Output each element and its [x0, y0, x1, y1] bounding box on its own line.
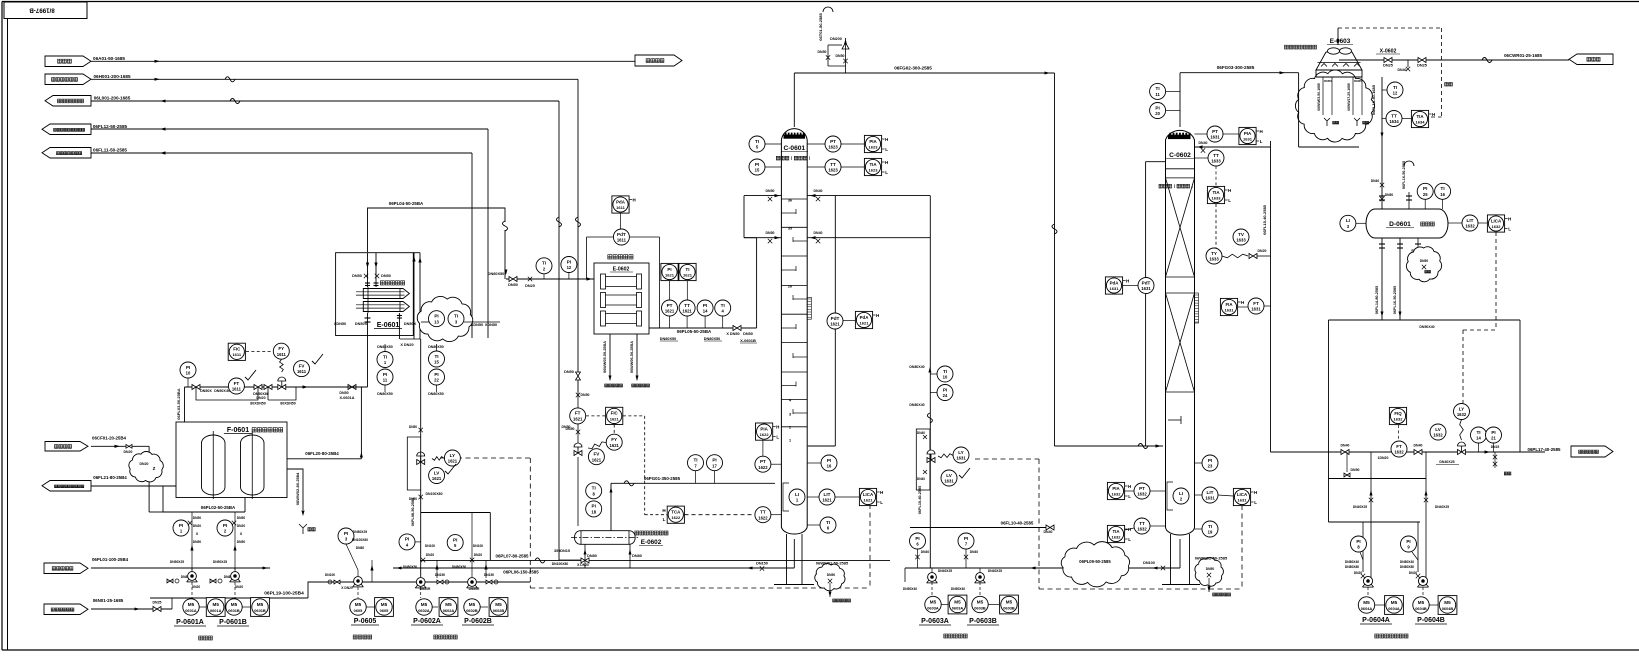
- svg-text:PdT: PdT: [831, 316, 840, 321]
- label 提馏塔底泵: [434, 635, 438, 639]
- svg-text:DN20: DN20: [525, 284, 535, 288]
- svg-text:1631: 1631: [956, 456, 966, 461]
- svg-text:TIA: TIA: [1212, 190, 1220, 195]
- cloud interior drains: [1322, 77, 1324, 115]
- instrument PIA-1631: [1239, 127, 1256, 144]
- instrument TIA-1634: [1411, 110, 1428, 127]
- svg-text:XDN50: XDN50: [334, 322, 346, 326]
- svg-text:1611: 1611: [277, 352, 287, 357]
- svg-text:06FL12-50-2585: 06FL12-50-2585: [93, 124, 128, 129]
- instrument TI-10: [937, 366, 953, 382]
- signal LICA-1632 to LY-1632: [1495, 232, 1497, 330]
- svg-text:DN40: DN40: [917, 431, 925, 435]
- svg-text:26: 26: [788, 285, 792, 289]
- svg-text:06WW03-50-1685: 06WW03-50-1685: [1317, 83, 1321, 111]
- svg-text:DN40: DN40: [917, 477, 925, 481]
- svg-text:1633: 1633: [1236, 238, 1246, 243]
- svg-text:DN80X40: DN80X40: [909, 365, 924, 369]
- feed riser from filter: [743, 196, 745, 238]
- svg-text:DN20: DN20: [426, 553, 435, 557]
- svg-text:1632: 1632: [1465, 224, 1475, 229]
- svg-text:DN150: DN150: [484, 573, 494, 577]
- svg-text:LICA: LICA: [1237, 492, 1248, 497]
- svg-text:1632: 1632: [1457, 412, 1467, 417]
- instrument LICA-1632: [1487, 215, 1504, 232]
- P-0605 suction: [330, 581, 358, 583]
- valves on product line: [1414, 450, 1422, 455]
- svg-text:PI: PI: [827, 458, 831, 463]
- filter element: [601, 274, 606, 289]
- pipe through cloud: [421, 321, 429, 323]
- svg-text:PT: PT: [667, 303, 673, 308]
- svg-text:DN40: DN40: [921, 550, 930, 554]
- pump P-0604B: [1418, 576, 1427, 585]
- C-0602 packing section 1: [1166, 276, 1195, 278]
- svg-text:TCA: TCA: [671, 510, 681, 515]
- svg-text:1631: 1631: [1251, 307, 1261, 312]
- svg-text:1623: 1623: [869, 144, 879, 149]
- motor P-0602A: [416, 599, 432, 615]
- svg-text:DN100: DN100: [425, 544, 435, 548]
- pipe feed to E-0602: [506, 278, 594, 280]
- svg-text:D-0601: D-0601: [1389, 221, 1411, 228]
- svg-text:PI: PI: [592, 504, 596, 509]
- instrument FT-1621: [570, 408, 586, 424]
- svg-text:DN50X: DN50X: [355, 322, 368, 326]
- svg-text:PI: PI: [1423, 186, 1427, 191]
- svg-text:M5: M5: [421, 602, 428, 607]
- pump P-0601B symbol: [231, 572, 240, 581]
- P-0605 discharge: [371, 560, 373, 582]
- svg-text:DN80: DN80: [356, 546, 365, 550]
- svg-text:PI: PI: [943, 387, 947, 392]
- svg-text:1634: 1634: [1416, 119, 1426, 124]
- pipe raw water feed 06PL01: [91, 567, 270, 569]
- stream arrow 至用气点: [635, 55, 682, 66]
- C-0602 demister hatch: [1168, 135, 1191, 139]
- svg-text:M5: M5: [188, 602, 195, 607]
- D-0601 top nozzles: [1408, 192, 1410, 209]
- signal dashed box left: [440, 457, 530, 459]
- svg-text:06A01-50-1685: 06A01-50-1685: [93, 56, 125, 61]
- svg-text:DN150: DN150: [756, 562, 768, 566]
- svg-text:18: 18: [591, 510, 596, 515]
- svg-text:FT: FT: [234, 381, 240, 386]
- instrument LV-1621 bubble: [429, 468, 445, 484]
- reflux riser: [1270, 141, 1272, 452]
- signal FIC to FY: [246, 351, 272, 353]
- equipment D-0601 reflux drum: [1366, 209, 1448, 238]
- svg-text:06WW02-80-2584: 06WW02-80-2584: [295, 472, 300, 505]
- motor interlock P-0603A: [948, 595, 967, 614]
- svg-text:0603A: 0603A: [927, 605, 939, 610]
- svg-text:L: L: [885, 170, 888, 175]
- svg-text:C-0602: C-0602: [1169, 152, 1191, 159]
- svg-text:06PL03-50-25BA: 06PL03-50-25BA: [176, 388, 181, 419]
- svg-text:16: 16: [827, 464, 832, 469]
- pipe column bottoms to pumps: [640, 567, 745, 569]
- svg-text:1631: 1631: [1210, 135, 1220, 140]
- svg-text:DN80X50: DN80X50: [488, 272, 504, 276]
- svg-text:DN80X50: DN80X50: [428, 345, 444, 349]
- svg-text:X DN20: X DN20: [341, 586, 353, 590]
- motor interlock P-0605: [375, 598, 394, 617]
- svg-text:PI: PI: [915, 536, 919, 541]
- svg-text:0604A: 0604A: [1388, 606, 1400, 611]
- svg-text:1611: 1611: [617, 238, 627, 243]
- svg-text:FIA: FIA: [1225, 302, 1233, 307]
- svg-text:1: 1: [789, 439, 791, 443]
- svg-text:DN40: DN40: [970, 550, 979, 554]
- svg-text:06FG02-300-2585: 06FG02-300-2585: [894, 66, 932, 71]
- svg-text:PdT: PdT: [617, 232, 626, 237]
- level control assembly LV-1631: [916, 429, 930, 490]
- E-0601 bottom nozzles: [367, 313, 369, 387]
- svg-text:DN50: DN50: [237, 540, 246, 544]
- pipe feed line to E-0601: [185, 386, 368, 388]
- svg-text:L: L: [776, 435, 779, 440]
- stream arrow 加药管线: [45, 442, 88, 452]
- svg-text:L: L: [1128, 494, 1131, 499]
- svg-text:DN40: DN40: [1371, 179, 1380, 183]
- equipment E-0601 box frame: [336, 253, 414, 336]
- svg-text:DN20: DN20: [235, 585, 244, 589]
- instrument LV-1631: [941, 470, 957, 486]
- label 原料泵: [199, 636, 203, 640]
- instrument TI-15: [429, 351, 445, 367]
- C-0601 right nozzle lower: [807, 237, 930, 239]
- svg-text:L: L: [880, 500, 883, 505]
- svg-text:DN20: DN20: [1258, 249, 1267, 253]
- svg-text:P-0603B: P-0603B: [969, 618, 997, 625]
- stub lines TI/PI right: [436, 344, 438, 351]
- svg-text:06N01-25-1685: 06N01-25-1685: [93, 598, 124, 603]
- suction risers P-0601: [191, 568, 193, 572]
- svg-text:06WW02-50-2585: 06WW02-50-2585: [1195, 556, 1228, 561]
- instrument PIA-1632: [1107, 482, 1124, 499]
- C-0602 packing section 2: [1166, 292, 1195, 294]
- svg-text:DN80X50: DN80X50: [377, 345, 393, 349]
- svg-text:36: 36: [788, 199, 792, 203]
- instrument TIA-1623: [864, 158, 881, 175]
- svg-text:06PL04-50-25BA: 06PL04-50-25BA: [389, 201, 424, 206]
- drain funnel 排净: [299, 524, 303, 528]
- svg-text:12: 12: [1393, 91, 1398, 96]
- svg-text:06FL20-80-25B4: 06FL20-80-25B4: [305, 451, 339, 456]
- instrument LY-1621: [444, 450, 460, 466]
- svg-text:1622: 1622: [671, 515, 681, 520]
- svg-text:DN50: DN50: [1351, 468, 1360, 472]
- discharge risers P-0601: [191, 540, 193, 570]
- arrow into cooler top: [1337, 28, 1339, 45]
- instrument FIC-1611: [228, 343, 245, 360]
- svg-text:TIA: TIA: [869, 162, 877, 167]
- instrument LY-1632: [1454, 404, 1470, 420]
- instrument PI-17: [707, 455, 723, 471]
- pipe below E-0601 area: [330, 386, 368, 388]
- instrument PI-10: [180, 362, 196, 378]
- svg-text:X DN20: X DN20: [577, 563, 589, 567]
- svg-text:1632: 1632: [1137, 492, 1147, 497]
- svg-text:DN50: DN50: [1385, 193, 1394, 197]
- svg-text:FV: FV: [299, 363, 306, 368]
- label 反冲洗泵: [353, 635, 357, 639]
- svg-text:DN50: DN50: [1324, 79, 1332, 83]
- motor P-0603B: [972, 596, 988, 612]
- pipe 仪表风 header: [91, 60, 635, 62]
- motor P-0604A: [1358, 597, 1374, 613]
- C-0602 side hatch strip: [1195, 293, 1199, 323]
- svg-text:15: 15: [434, 360, 439, 365]
- svg-text:1622: 1622: [758, 465, 768, 470]
- bypass loop at LV-1621: [407, 437, 420, 490]
- svg-text:H: H: [1128, 484, 1131, 489]
- filter drain lines: [609, 334, 611, 380]
- svg-text:1623: 1623: [828, 145, 838, 150]
- stream arrow 脱盐水: [1569, 54, 1613, 65]
- stub lines TI/PI left: [384, 344, 386, 352]
- svg-text:X-0601A: X-0601A: [340, 396, 355, 400]
- filter vessel: [241, 435, 265, 495]
- svg-text:M5: M5: [1418, 600, 1425, 605]
- pump P-0603B: [976, 573, 985, 582]
- svg-text:TI: TI: [542, 261, 546, 266]
- pipe C-0601 overhead 06FG02-300-2585: [793, 73, 795, 127]
- instrument PI-5: [447, 535, 463, 551]
- svg-text:L: L: [1228, 198, 1231, 203]
- instrument TI-8: [586, 483, 602, 499]
- instrument PI-6: [910, 533, 926, 549]
- svg-text:DN50: DN50: [352, 274, 362, 278]
- svg-text:DN200: DN200: [830, 37, 842, 41]
- instruments above outlet: [661, 263, 678, 280]
- svg-text:1632: 1632: [1433, 433, 1443, 438]
- svg-text:H: H: [1508, 217, 1511, 222]
- svg-text:TI: TI: [943, 369, 947, 374]
- cloud revision at E-0601 outlet: [417, 296, 472, 341]
- svg-text:TI: TI: [1441, 186, 1445, 191]
- svg-text:TT: TT: [1391, 113, 1397, 118]
- instrument PI-8: [1351, 536, 1367, 552]
- svg-text:LICA: LICA: [1491, 218, 1502, 223]
- svg-text:1622: 1622: [760, 432, 770, 437]
- svg-text:PI: PI: [223, 523, 227, 528]
- svg-text:DN100: DN100: [1143, 561, 1155, 565]
- svg-text:PT: PT: [760, 459, 766, 464]
- svg-text:DN50: DN50: [1420, 259, 1429, 263]
- svg-text:PIA: PIA: [1244, 131, 1252, 136]
- svg-text:DN150: DN150: [435, 573, 445, 577]
- pipe F-0601 outlet 06FL20: [287, 458, 361, 460]
- motor P-0604A interlock: [1385, 596, 1404, 615]
- svg-text:DN20: DN20: [193, 524, 202, 528]
- pipe backwash return: [91, 485, 163, 487]
- svg-text:H: H: [662, 508, 665, 513]
- svg-text:M5: M5: [445, 602, 452, 607]
- svg-text:M5: M5: [257, 602, 264, 607]
- pipe pump suction header: [904, 568, 906, 582]
- svg-text:LIT: LIT: [1467, 218, 1474, 223]
- filter vessel: [202, 435, 226, 495]
- instrument PT-1622: [755, 456, 771, 472]
- valve on feed line: [192, 385, 200, 390]
- instrument PIA-1622: [756, 423, 773, 440]
- svg-text:DN40: DN40: [814, 189, 823, 193]
- svg-text:DN20: DN20: [124, 450, 133, 454]
- instrument LV-1632 bubble: [1430, 424, 1446, 440]
- svg-text:E-0603: E-0603: [1330, 38, 1351, 45]
- motor P-0601B: [226, 599, 242, 615]
- cloud big below cooler: [1295, 70, 1374, 142]
- pipe C-0602 side line with PdT: [1146, 161, 1166, 163]
- svg-text:PdA: PdA: [1110, 280, 1120, 285]
- svg-text:TI: TI: [592, 486, 596, 491]
- svg-text:06PL05-50-25BA: 06PL05-50-25BA: [677, 329, 712, 334]
- reducer and DN20: [400, 338, 421, 340]
- svg-text:DN50X40: DN50X40: [951, 587, 965, 591]
- svg-text:1611: 1611: [232, 352, 241, 357]
- instrument TT-1623: [825, 159, 841, 175]
- instrument PI-1: [173, 520, 189, 536]
- instrument PT-1632: [1134, 483, 1150, 499]
- svg-text:1621: 1621: [610, 416, 620, 421]
- svg-text:PI: PI: [1491, 430, 1495, 435]
- svg-text:DN50X: DN50X: [200, 389, 212, 393]
- svg-text:13: 13: [434, 319, 439, 324]
- svg-text:8/1997-B: 8/1997-B: [29, 7, 55, 14]
- svg-text:DN80X40: DN80X40: [909, 403, 924, 407]
- svg-text:PT: PT: [1212, 129, 1218, 134]
- instrument FV-1621 bubble: [588, 449, 604, 465]
- C-0601 right nozzle upper: [807, 195, 930, 197]
- svg-text:1621: 1621: [448, 459, 458, 464]
- instrument PIA-1623: [864, 135, 881, 152]
- pipe 低温导热油回 header: [91, 100, 559, 102]
- svg-text:DN40X25: DN40X25: [988, 569, 1002, 573]
- svg-text:0602B: 0602B: [493, 608, 505, 613]
- svg-text:1621: 1621: [822, 498, 832, 503]
- svg-text:L: L: [1508, 227, 1511, 232]
- stream arrow 原料罐来水: [44, 563, 88, 574]
- svg-text:06WW01-50-2585: 06WW01-50-2585: [816, 561, 849, 566]
- pump P-0601A symbol: [188, 572, 197, 581]
- svg-text:X-0602: X-0602: [1380, 49, 1397, 55]
- control valve FV-1611: [280, 360, 284, 373]
- svg-text:11: 11: [383, 378, 388, 383]
- svg-text:LI: LI: [1346, 218, 1350, 223]
- svg-text:1632: 1632: [1112, 491, 1122, 496]
- svg-text:DN50X40: DN50X40: [1419, 325, 1434, 329]
- svg-text:H: H: [885, 160, 888, 165]
- svg-text:X DN20: X DN20: [400, 343, 413, 347]
- pump P-0602B symbol: [468, 578, 477, 587]
- control valve FV-1621: [574, 451, 582, 456]
- instrument TI-1: [377, 352, 393, 368]
- svg-text:DN50: DN50: [743, 332, 753, 336]
- suction branches: [931, 568, 933, 573]
- svg-text:DN50: DN50: [237, 516, 246, 520]
- stream arrow 不合格污水返回罐区: [42, 124, 91, 135]
- svg-text:FIC: FIC: [233, 347, 241, 352]
- instrument PdT-1631: [1138, 278, 1154, 294]
- svg-text:1621: 1621: [573, 417, 583, 422]
- svg-text:PI: PI: [567, 259, 571, 264]
- stream arrow 高温导热油水: [45, 74, 91, 85]
- svg-text:DN40X25: DN40X25: [938, 569, 952, 573]
- svg-text:FT: FT: [1253, 301, 1259, 306]
- instrument PI-24: [937, 385, 953, 401]
- motor P-0601A: [183, 599, 199, 615]
- svg-text:06FG03-300-2585: 06FG03-300-2585: [1217, 65, 1255, 70]
- svg-text:E-0602: E-0602: [641, 539, 662, 546]
- equipment F-0601 filter box: [176, 422, 287, 498]
- instrument PI-23: [1202, 455, 1218, 471]
- motor P-0605: [350, 599, 366, 615]
- svg-text:1632: 1632: [1492, 224, 1502, 229]
- instrument PI-22: [429, 369, 445, 385]
- svg-text:22: 22: [434, 378, 439, 383]
- instrument FT-1632: [1391, 441, 1407, 457]
- dP tap lines E-0602: [587, 236, 614, 238]
- instrument PI-11: [377, 369, 393, 385]
- pipe D-0601 bottoms header: [1329, 319, 1521, 321]
- signal TCA to TT-1622: [685, 514, 755, 516]
- svg-text:TI: TI: [826, 520, 830, 525]
- svg-text:M5: M5: [1391, 600, 1398, 605]
- svg-text:06FL15-40-2585: 06FL15-40-2585: [1262, 204, 1267, 235]
- svg-text:1633: 1633: [1211, 159, 1221, 164]
- svg-text:FV: FV: [593, 452, 600, 457]
- svg-text:06PL18-40-1685: 06PL18-40-1685: [1371, 84, 1376, 115]
- instrument LI-2 level: [1173, 488, 1189, 504]
- svg-text:1631: 1631: [1110, 286, 1120, 291]
- C-0601 feed nozzle upper: [744, 195, 781, 197]
- svg-text:350DN15: 350DN15: [554, 549, 570, 553]
- svg-text:0605: 0605: [354, 608, 363, 613]
- svg-text:P-0602B: P-0602B: [464, 618, 492, 625]
- instrument TI-6: [820, 517, 836, 533]
- svg-text:1631: 1631: [1205, 496, 1215, 501]
- svg-text:M5: M5: [213, 602, 220, 607]
- pipe filter riser to column feed: [756, 238, 758, 328]
- svg-text:M5: M5: [1006, 600, 1013, 605]
- svg-text:LV: LV: [946, 473, 952, 478]
- svg-text:M5: M5: [231, 602, 238, 607]
- svg-text:DN40X25: DN40X25: [1353, 505, 1367, 509]
- pipe 06PL04 over exchanger: [368, 208, 506, 252]
- svg-text:1621: 1621: [682, 309, 692, 314]
- instrument TI-16: [1435, 183, 1451, 199]
- svg-text:1633: 1633: [1212, 195, 1222, 200]
- svg-text:LIT: LIT: [824, 492, 831, 497]
- svg-text:1632: 1632: [1394, 416, 1404, 421]
- svg-text:TIA: TIA: [1416, 114, 1424, 119]
- svg-text:M5: M5: [469, 602, 476, 607]
- svg-text:06FL11-50-2585: 06FL11-50-2585: [93, 148, 127, 153]
- svg-text:DN50: DN50: [564, 370, 574, 374]
- svg-text:TI: TI: [1156, 86, 1160, 91]
- svg-text:L: L: [663, 517, 666, 522]
- pipe 高温导热油水 header: [91, 78, 578, 80]
- svg-text:LICA: LICA: [863, 492, 874, 497]
- instrument LIT-1632: [1462, 215, 1478, 231]
- svg-text:DN100X80: DN100X80: [552, 562, 569, 566]
- cloud on dosing line: [129, 451, 163, 481]
- pump P-0603A: [928, 573, 937, 582]
- instrument PT-1623: [825, 136, 841, 152]
- svg-text:FIQ: FIQ: [1394, 411, 1402, 416]
- svg-text:PI: PI: [453, 537, 457, 542]
